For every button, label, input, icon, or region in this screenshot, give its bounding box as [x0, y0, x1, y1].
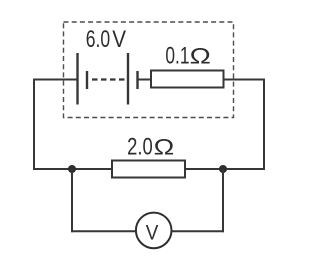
wire: left middle horizontal to resistor: [33, 168, 112, 170]
wire: bottom right horizontal from voltmeter: [171, 230, 224, 232]
wire: right drop to voltmeter branch: [222, 169, 224, 232]
resistor 2.0Ω body: [112, 161, 185, 178]
wire: dashed continuation between cells: [92, 78, 125, 80]
battery cell 1 long plate: [76, 53, 78, 105]
battery cell 2 long plate: [127, 53, 129, 105]
wire: internal resistor to right corner: [224, 79, 266, 81]
voltmeter V body circle: [136, 213, 172, 249]
battery cell 1 short plate: [86, 71, 88, 89]
voltmeter V letter: [146, 221, 159, 245]
svg-text:V: V: [112, 26, 126, 53]
wire: left vertical side: [33, 79, 35, 171]
svg-text:V: V: [146, 221, 159, 245]
label 0.1Ω: [165, 43, 210, 70]
wire: battery to internal resistor: [138, 79, 153, 81]
node junction dot left: [68, 165, 76, 173]
battery cell 2 short plate: [136, 71, 138, 89]
wire: left top horizontal into battery: [34, 79, 78, 81]
svg-text:2.0: 2.0: [127, 134, 153, 161]
wire: left drop to voltmeter branch: [71, 169, 73, 232]
wire: bottom left horizontal to voltmeter: [71, 230, 136, 232]
wire: right vertical side: [263, 79, 265, 171]
svg-text:Ω: Ω: [154, 135, 175, 160]
svg-text:Ω: Ω: [190, 44, 211, 69]
dashed battery enclosure box: [64, 22, 234, 118]
label 6.0V: [86, 26, 126, 53]
node junction dot right: [219, 165, 227, 173]
wire: resistor to right middle horizontal: [185, 168, 265, 170]
svg-text:0.1: 0.1: [165, 43, 189, 70]
svg-text:6.0: 6.0: [86, 26, 110, 53]
resistor 0.1Ω body: [151, 71, 224, 88]
label 2.0Ω: [127, 134, 174, 161]
